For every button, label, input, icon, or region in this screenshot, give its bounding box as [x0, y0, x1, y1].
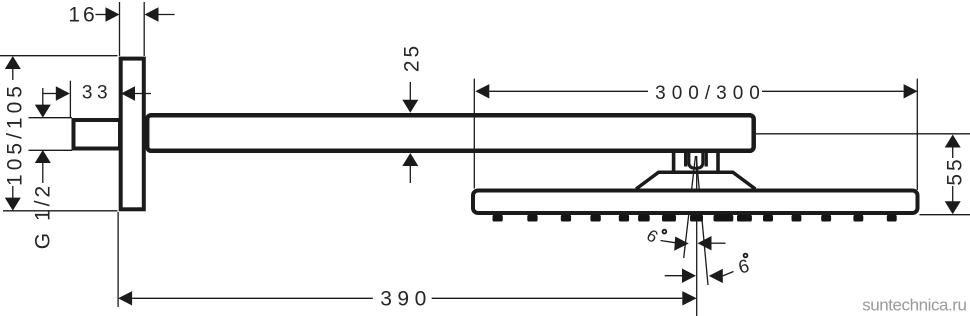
dimension 55 label [944, 156, 967, 185]
dimension 16 label [68, 4, 97, 27]
svg-text:33: 33 [82, 83, 112, 104]
dimension 105/105 extension lines [0, 56, 118, 211]
watermark suntechnica.ru [862, 296, 966, 315]
svg-text:6: 6 [736, 255, 751, 278]
dimension 55 top arrow [945, 135, 961, 159]
svg-text:25: 25 [401, 43, 424, 72]
dimension 33 left arrow [43, 86, 70, 100]
angle 6deg lower left arrow [665, 269, 696, 283]
dimension 33 right arrow [121, 86, 151, 100]
angle 6deg upper left arrow [661, 237, 689, 251]
dimension 33 extension line [69, 81, 71, 118]
spray axis center line [696, 156, 698, 316]
dimension 105/105 bottom arrow [5, 186, 21, 211]
angle 6deg upper right arrow [698, 236, 726, 250]
svg-text:390: 390 [380, 288, 432, 311]
dimension 390 extension line [117, 212, 119, 307]
ball joint left wall [672, 152, 676, 173]
nozzle row [493, 215, 897, 222]
svg-text:G 1/2: G 1/2 [32, 183, 55, 249]
dimension 300/300 extension lines [474, 79, 917, 190]
shower head plate [473, 191, 918, 214]
wall supply pipe stub [74, 120, 121, 149]
cone escutcheon trapezoid [636, 172, 755, 189]
dimension 105/105 top arrow [5, 56, 21, 80]
svg-text:105/105: 105/105 [4, 82, 27, 186]
dimension 55 extension lines [756, 134, 970, 215]
dimension 55 bottom arrow [945, 186, 961, 214]
G 1/2 bottom arrow [35, 150, 51, 183]
G 1/2 top arrow [35, 88, 51, 118]
dimension 16 extension lines [120, 2, 145, 56]
dimension 25 label [401, 43, 424, 72]
svg-text:300/300: 300/300 [655, 83, 766, 104]
dimension 390 right arrow [432, 291, 697, 305]
dimension 390 left arrow [118, 291, 373, 305]
ball joint right wall [716, 152, 720, 173]
dimension 300/300 label [655, 83, 766, 104]
angle 6deg lower right arrow [709, 269, 734, 283]
G 1/2 label [32, 183, 55, 249]
dimension 300/300 left arrow [475, 84, 648, 98]
dimension 16 right arrow [145, 7, 175, 21]
dimension 390 label [380, 288, 432, 311]
ball joint inner right [705, 152, 708, 167]
dimension 25 bottom arrow [402, 153, 418, 183]
wall plate [121, 59, 144, 210]
dimension 25 top arrow [402, 82, 418, 113]
shower arm [147, 115, 754, 151]
dimension 16 left arrow [96, 7, 120, 21]
dimension 33 label [82, 83, 112, 104]
spray line left 6deg [684, 156, 696, 258]
svg-text:6: 6 [643, 226, 661, 247]
dimension 105/105 label [4, 82, 27, 186]
svg-text:55: 55 [944, 156, 967, 185]
svg-text:16: 16 [68, 4, 97, 27]
G 1/2 extension lines [29, 118, 73, 151]
ball joint cup [689, 152, 703, 168]
ball joint inner left [684, 152, 687, 167]
angle 6deg lower label [736, 254, 751, 278]
svg-text:suntechnica.ru: suntechnica.ru [862, 296, 966, 315]
dimension 300/300 right arrow [762, 84, 918, 98]
spray line right 6deg [696, 156, 708, 285]
angle 6deg upper label [643, 226, 666, 247]
